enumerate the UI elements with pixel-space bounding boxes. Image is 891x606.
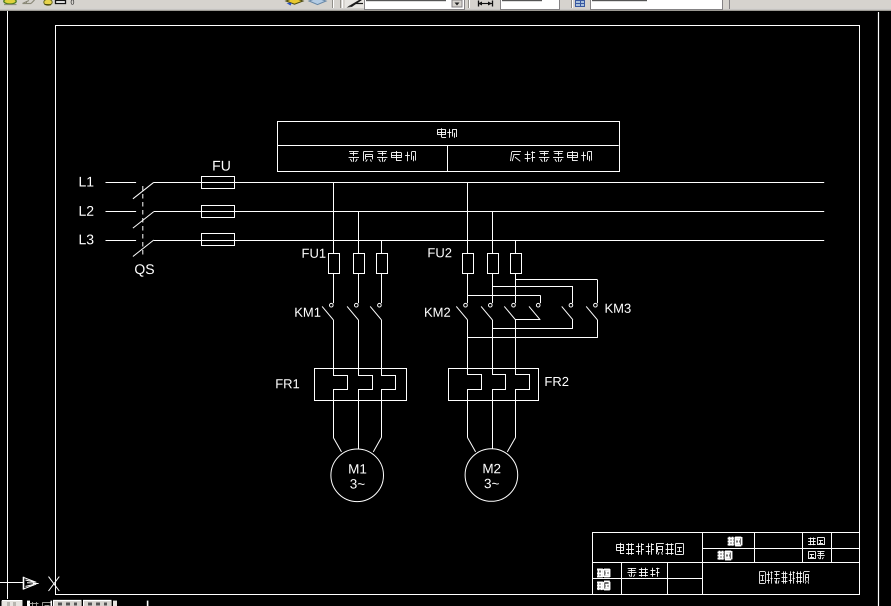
toolbar icon: blue grid xyxy=(576,0,585,7)
contactor KM3 pole 2 terminal circle xyxy=(569,303,573,307)
bottom layout tab 1 xyxy=(53,601,82,606)
bottom tab bar scroll buttons xyxy=(2,601,23,606)
wire KM3-1 output to phase C line xyxy=(540,319,542,321)
svg-text:FR1: FR1 xyxy=(275,376,300,391)
title block outline xyxy=(592,532,859,594)
title block bold label (审核) xyxy=(718,551,732,560)
wire drop L3 to FU1-3 xyxy=(381,240,383,253)
contactor KM3 pole 2 blade xyxy=(562,306,573,319)
svg-text:QS: QS xyxy=(134,261,154,277)
wire drop L2 to FU2-2 xyxy=(492,212,494,254)
contactor KM3 pole 1 blade xyxy=(529,306,540,319)
wire tap phase A to KM3-1 xyxy=(468,295,541,297)
wire KM1-2 to FR1 xyxy=(358,320,360,369)
wire drop L2 to FU1-2 xyxy=(358,212,360,254)
toolbar icon: yellow round xyxy=(4,0,17,5)
bottom tab bar tick xyxy=(27,601,30,606)
thermal relay FR1 box xyxy=(315,369,407,401)
wire KM2-3 to FR2 xyxy=(515,320,517,369)
contactor KM1 pole 2 blade xyxy=(347,306,358,319)
contactor KM3 pole 1 terminal circle xyxy=(536,303,540,307)
right canvas edge line xyxy=(878,12,880,606)
table cell text 沉降泵电机 xyxy=(349,151,416,162)
table header text 电机 xyxy=(437,128,456,137)
fuse FU1-3 xyxy=(377,254,388,274)
wire FU1-2 to KM1-2 xyxy=(358,274,360,304)
contactor KM1 pole 3 terminal circle xyxy=(378,303,382,307)
toolbar icon: blue layer rhombus xyxy=(309,0,326,5)
svg-text:M1: M1 xyxy=(348,461,367,476)
wire KM1-3 to FR1 xyxy=(381,320,383,369)
contactor KM1 pole 1 blade xyxy=(322,306,333,319)
FR2 heater element 3 xyxy=(516,369,530,401)
switch QS linkage dashed xyxy=(142,186,144,258)
toolbar combobox 2 xyxy=(501,0,560,10)
switch QS blade 3 xyxy=(133,240,154,257)
fuse FU-1 xyxy=(202,177,235,189)
FR1 heater element 2 xyxy=(359,369,373,401)
UCS axis line xyxy=(0,582,23,584)
wire FR1-3 to motor M1 xyxy=(381,401,383,438)
wire KM2-1 to FR2 xyxy=(467,320,469,369)
toolbar icon: grey sheet xyxy=(23,0,35,4)
contactor KM1 pole 1 terminal circle xyxy=(330,303,334,307)
bottom tab separator xyxy=(51,601,53,606)
svg-text:3~: 3~ xyxy=(484,476,500,491)
contactor KM1 pole 3 blade xyxy=(370,306,381,319)
switch QS blade 1 xyxy=(133,182,154,199)
fuse FU2-1 xyxy=(463,254,474,274)
wire FU1-1 to KM1-1 xyxy=(333,274,335,304)
svg-text:3~: 3~ xyxy=(350,476,366,491)
title block label 图号 xyxy=(808,552,825,560)
wire drop L1 to FU1-1 xyxy=(333,182,335,253)
toolbar background xyxy=(0,0,891,11)
motor M1 circle xyxy=(331,449,384,502)
UCS arrow head xyxy=(23,577,39,590)
wire KM1-1 to FR1 xyxy=(333,320,335,369)
svg-text:M2: M2 xyxy=(482,461,501,476)
title block bold label (设计) xyxy=(597,569,610,578)
wire tap phase B to KM3-2 xyxy=(492,286,573,288)
fuse FU1-2 xyxy=(354,254,365,274)
contactor KM2 pole 1 blade xyxy=(456,306,467,319)
toolbar separator 2 xyxy=(469,0,471,8)
toolbar icon: dimension arrows xyxy=(478,1,493,7)
FR2 heater element 1 xyxy=(468,369,482,401)
crosshair cursor X xyxy=(49,577,60,591)
contactor KM2 pole 2 blade xyxy=(481,306,492,319)
bottom tab bar end tick xyxy=(113,601,117,606)
bottom tab bar far tick xyxy=(147,601,149,606)
bottom layout tab 2 xyxy=(83,601,112,606)
table cell text 反冲洗泵电机 xyxy=(511,151,592,162)
svg-text:KM3: KM3 xyxy=(604,301,631,316)
fuse FU-2 xyxy=(202,206,235,218)
contactor KM2 pole 2 terminal circle xyxy=(489,303,493,307)
title block label 比例 xyxy=(808,538,825,546)
toolbar separators xyxy=(333,0,335,8)
svg-text:FU1: FU1 xyxy=(301,246,326,261)
contactor KM2 pole 1 terminal circle xyxy=(464,303,468,307)
wire FU2-1 to KM2-1 xyxy=(467,274,469,304)
wire KM2-2 to FR2 xyxy=(492,320,494,369)
wire KM3-2 output to phase B line xyxy=(572,320,574,329)
thermal relay FR2 box xyxy=(449,369,539,401)
FR2 heater element 2 xyxy=(493,369,506,401)
svg-text:KM1: KM1 xyxy=(294,305,321,320)
fuse FU2-3 xyxy=(511,254,522,274)
wire tap phase C to KM3-3 xyxy=(516,279,598,281)
fuse FU2-2 xyxy=(488,254,499,274)
wire L1 bus xyxy=(106,182,137,184)
wire FR2-2 to motor M2 xyxy=(492,400,494,449)
wire FU2-3 to KM2-3 xyxy=(515,274,517,304)
fuse FU1-1 xyxy=(329,254,340,274)
wire FU1-3 to KM1-3 xyxy=(381,274,383,304)
switch QS blade 2 xyxy=(133,212,154,229)
contactor KM2 pole 3 blade xyxy=(504,306,515,319)
title block name 宋立伟 xyxy=(627,568,659,577)
fuse FU-3 xyxy=(202,234,235,246)
contactor KM2 pole 3 terminal circle xyxy=(512,303,516,307)
wire L2 bus xyxy=(106,211,137,213)
contactor KM3 pole 3 terminal circle xyxy=(594,303,598,307)
title block school name xyxy=(759,571,809,583)
svg-text:FU2: FU2 xyxy=(427,245,452,260)
svg-text:L3: L3 xyxy=(78,231,94,247)
title block bold label (描图) xyxy=(597,582,610,591)
left docked panel edge line xyxy=(7,11,9,599)
toolbar icon: white rect xyxy=(56,1,66,4)
toolbar separator 3 xyxy=(572,0,574,8)
wire FR2-3 to motor M2 xyxy=(515,400,517,437)
wire FR1-2 to motor M1 xyxy=(358,401,360,449)
motor description table xyxy=(277,122,620,172)
title text 电气控制原理图 xyxy=(616,543,683,555)
svg-text:0: 0 xyxy=(71,0,75,7)
toolbar icon: pen on button xyxy=(345,0,365,8)
contactor KM3 pole 3 blade xyxy=(586,306,597,319)
wire KM3-3 output to phase A line xyxy=(597,320,599,338)
motor M2 circle xyxy=(465,449,518,502)
bottom tab 模型 text (clipped) xyxy=(30,602,52,606)
wire drop L1 to FU2-1 xyxy=(467,182,469,253)
FR1 heater element 1 xyxy=(334,369,348,401)
svg-text:FU: FU xyxy=(212,157,231,173)
wire FR2-1 to motor M2 xyxy=(467,400,469,437)
title block bold label (制图) xyxy=(728,537,742,546)
wire FU2-2 to KM2-2 xyxy=(492,274,494,304)
wire L3 bus xyxy=(106,240,137,242)
FR1 heater element 3 xyxy=(382,369,396,401)
toolbar combobox 1 xyxy=(365,0,465,10)
svg-text:L1: L1 xyxy=(78,174,94,190)
toolbar combobox 3 xyxy=(591,0,730,10)
contactor KM1 pole 2 terminal circle xyxy=(355,303,359,307)
wire drop L3 to FU2-3 xyxy=(515,240,517,253)
svg-text:KM2: KM2 xyxy=(424,305,451,320)
wire FR1-1 to motor M1 xyxy=(333,401,335,438)
toolbar icon: yellow layer rhombus xyxy=(286,0,303,6)
toolbar icon: yellow blob xyxy=(44,0,52,5)
svg-text:FR2: FR2 xyxy=(544,374,569,389)
svg-text:L2: L2 xyxy=(78,203,94,219)
